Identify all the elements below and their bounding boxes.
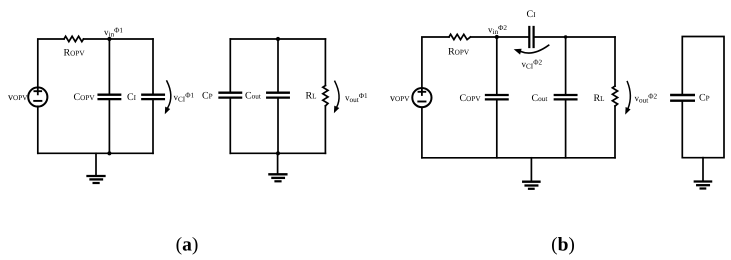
wire: Cout branch bottom (a): [277, 99, 279, 154]
wire: source bottom (b): [421, 107, 423, 158]
resistor RL (a): [323, 86, 328, 106]
wire: RL right edge top (b): [614, 37, 616, 86]
ground (b) main: [523, 158, 539, 189]
svg-text:COPV: COPV: [460, 93, 482, 104]
svg-text:vinΦ2: vinΦ2: [488, 24, 507, 36]
svg-text:vinΦ1: vinΦ1: [104, 27, 123, 39]
wire: bottom (a) loop2: [230, 152, 325, 154]
svg-text:RL: RL: [306, 91, 317, 102]
wire: Cout branch bottom (b): [565, 101, 567, 158]
wire: CP left edge bottom (a): [229, 99, 231, 154]
arrow vCI phi2 (b): [514, 45, 549, 54]
capacitor CP (b): [671, 95, 694, 101]
svg-text:CI: CI: [127, 92, 137, 103]
wire: right edge top to CI (a): [152, 39, 154, 94]
svg-text:CP: CP: [699, 93, 710, 104]
wire: bottom (a) loop1: [38, 152, 153, 154]
junction dot bottom Cout (a): [276, 151, 280, 155]
svg-text:vCIΦ2: vCIΦ2: [522, 59, 543, 71]
wire: top right segment (a): [84, 38, 154, 40]
ground (a) loop2: [269, 153, 286, 181]
capacitor CP (a): [220, 93, 242, 98]
wire: RL right edge bottom (b): [614, 106, 616, 158]
svg-text:CP: CP: [202, 91, 213, 102]
wire: COPV branch bottom (a): [108, 100, 110, 153]
wire: top (a) loop2: [230, 38, 325, 40]
wire: source bottom (a): [37, 106, 39, 153]
junction dot top Cout (b): [564, 35, 567, 38]
svg-text:CI: CI: [526, 9, 536, 20]
svg-text:ROPV: ROPV: [448, 47, 470, 58]
junction dot bottom COPV (a): [107, 151, 111, 155]
svg-text:(a): (a): [176, 235, 199, 256]
voltage source vOPV (a): [28, 87, 47, 106]
arrow vCI phi1 (a): [165, 81, 171, 114]
wire: RL right edge bottom (a): [324, 106, 326, 153]
svg-text:vCIΦ1: vCIΦ1: [174, 92, 195, 104]
ground (a) loop1: [88, 153, 105, 183]
capacitor COPV (a): [99, 95, 121, 99]
capacitor CI (a): [142, 95, 164, 99]
svg-text:ROPV: ROPV: [64, 48, 86, 59]
wire: COPV branch top (a): [108, 39, 110, 94]
wire: node to CI left plate (b): [471, 36, 529, 38]
voltage source vOPV (b): [412, 88, 431, 107]
wire: right edge bottom (a): [152, 100, 154, 153]
resistor ROPV (b): [449, 34, 471, 39]
svg-text:COPV: COPV: [74, 92, 96, 103]
arrow vout phi2 (b): [625, 82, 630, 115]
arrow vout phi1 (a): [334, 81, 339, 113]
capacitor CI (b): [529, 27, 533, 47]
wire: Cout branch top (b): [565, 37, 567, 94]
wire: COPV branch top (b): [496, 37, 498, 94]
wire: CI right plate to top-right corner (b): [535, 36, 615, 38]
svg-text:vOPV: vOPV: [390, 93, 410, 104]
node vin phi2 junction dot (b): [495, 35, 499, 39]
resistor ROPV (a): [64, 36, 84, 41]
svg-text:voutΦ1: voutΦ1: [345, 92, 368, 104]
wire: CP box top right bottom (b): [682, 37, 724, 158]
wire: CP left edge top (a): [229, 39, 231, 92]
wire: COPV branch bottom (b): [496, 101, 498, 158]
svg-text:RL: RL: [594, 93, 605, 104]
svg-text:(b): (b): [551, 235, 575, 256]
wire: RL right edge top (a): [324, 39, 326, 86]
resistor RL (b): [612, 86, 617, 106]
capacitor Cout (a): [267, 93, 289, 98]
capacitor Cout (b): [555, 95, 577, 99]
wire: source top to top-left corner (b): [422, 37, 449, 88]
node dot top Cout (a): [276, 37, 280, 41]
svg-text:voutΦ2: voutΦ2: [635, 93, 658, 105]
wire: Cout branch top (a): [277, 39, 279, 92]
wire: bottom (b): [422, 157, 615, 159]
node vin phi1 junction dot (a): [107, 37, 111, 41]
ground (b) CP box: [695, 158, 711, 189]
capacitor COPV (b): [486, 95, 508, 99]
svg-text:Cout: Cout: [532, 93, 548, 104]
wire: source top to top-left corner (a): [38, 39, 64, 87]
svg-text:Cout: Cout: [245, 91, 261, 102]
svg-text:vOPV: vOPV: [8, 92, 28, 103]
